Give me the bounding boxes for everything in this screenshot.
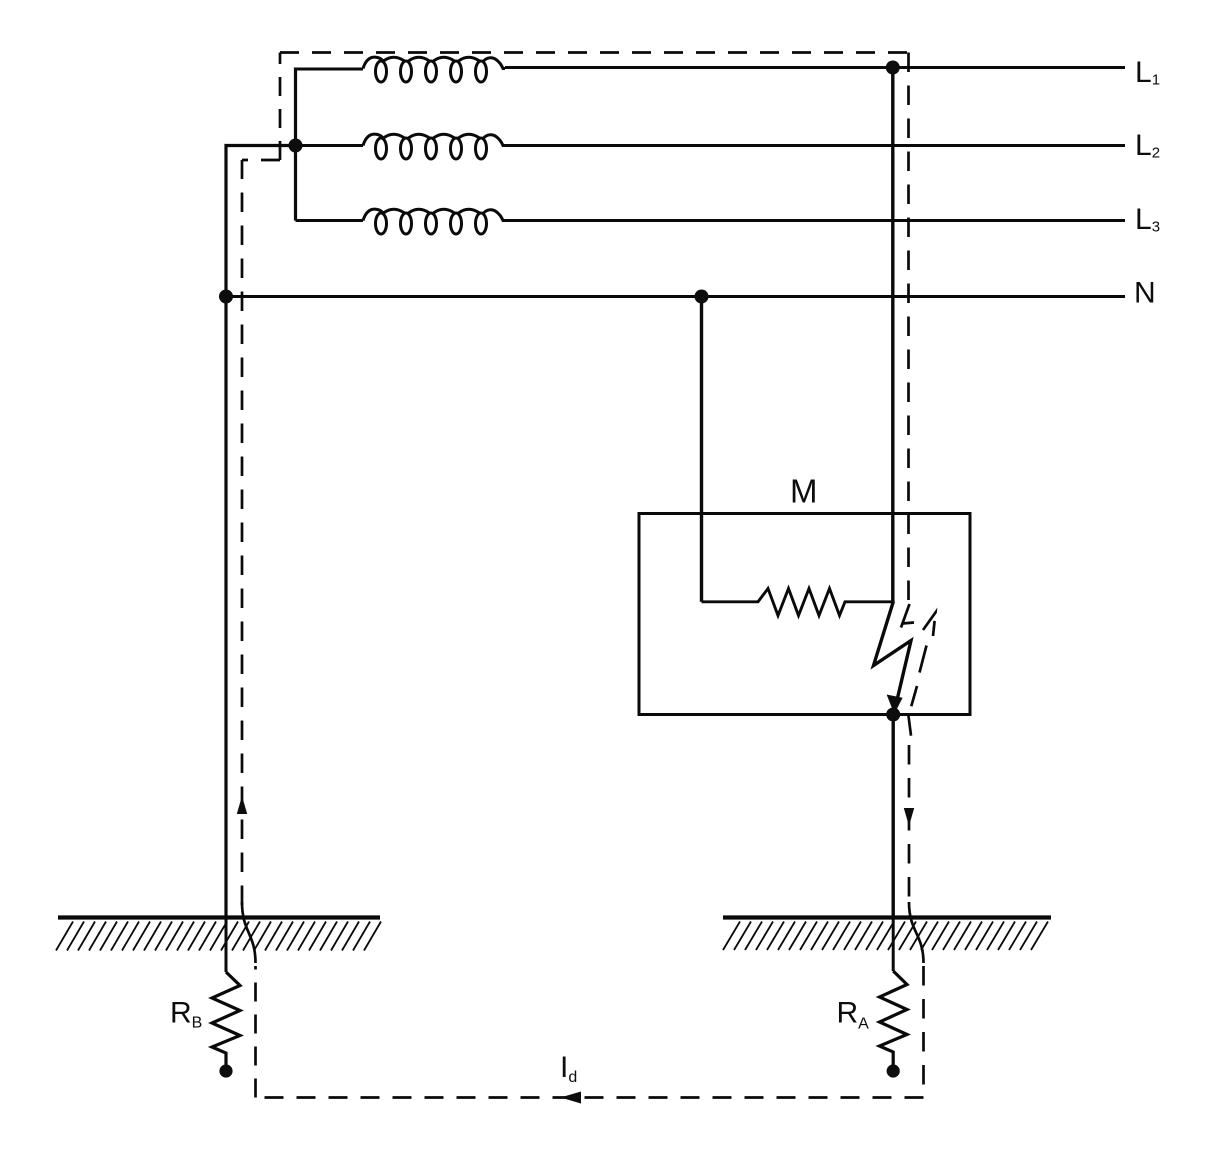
enclosure M box [639,514,970,715]
node earth electrode right [887,1064,900,1077]
wire L3 left lead [296,219,364,222]
wire L2 line [505,144,1125,147]
node N left junction [219,290,233,304]
wire N drop to motor [700,297,703,602]
wire dashed right drop (lower) [908,745,911,905]
wire dashed crossing ground left [242,902,256,963]
svg-text:M: M [790,473,818,510]
ground hatch left [56,922,381,951]
wire dashed left top rise [279,53,282,161]
wire star point to neutral conductor [226,146,296,918]
wire star-point bar [294,68,297,221]
wire dashed right drop (upper) [907,53,910,601]
node earth electrode left [219,1064,232,1077]
wire dashed top run [280,51,909,54]
wire dashed left rise [241,160,244,905]
wire dashed right below ground [922,966,925,1097]
ground surface right [723,915,1051,919]
node N motor tap [695,290,709,304]
wire N line [226,295,1125,298]
resistor R-load (motor winding) [702,589,893,616]
wire dashed crossing ground right [909,902,924,963]
svg-text:RA: RA [837,997,870,1033]
svg-text:L1: L1 [1135,56,1160,89]
wire earth lead right [892,918,895,972]
node star point [289,139,303,153]
resistor RB [212,972,240,1065]
arrow down on right dashed path [904,808,914,826]
wire dashed bolt parallel [901,604,910,628]
svg-text:N: N [1134,277,1156,310]
winding T2 (L2 secondary coil) [363,134,383,145]
wire L3 line [505,219,1125,222]
wire dashed jog [242,159,280,162]
wire L1 drop to motor [891,68,894,602]
wire dashed left below ground [254,966,257,1098]
wire L1 line [505,66,1125,69]
svg-text:RB: RB [170,997,202,1032]
dashed fault-current loop [242,53,936,1098]
resistor RA [880,971,908,1065]
arrow left on bottom dashed path [561,1092,582,1104]
arrow up on left dashed path [237,796,247,814]
wire motor frame to earth electrode [892,715,895,918]
winding T1 (L1 secondary coil) [363,57,383,68]
ground hatch right [723,922,1048,951]
winding T3 (L3 secondary coil) [363,209,383,220]
wire L1 left lead [296,68,364,71]
ground surface left [58,915,380,919]
svg-text:L3: L3 [1135,203,1160,236]
wire dashed bottom run [256,1096,924,1099]
svg-text:Id: Id [560,1051,577,1086]
fault bolt (solid) [874,601,912,701]
fault bolt arrowhead [887,695,903,715]
svg-text:L2: L2 [1135,129,1160,162]
node L1 drop junction [886,61,900,75]
node motor frame junction [886,708,900,722]
wire earth lead left [225,918,228,973]
wire L2 left lead [296,144,364,147]
